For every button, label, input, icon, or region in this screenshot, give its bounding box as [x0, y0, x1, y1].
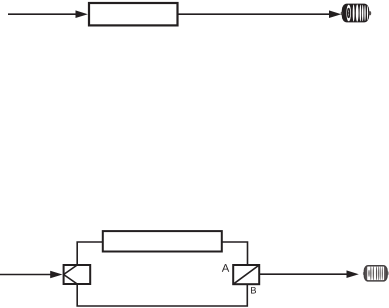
box: upper-arm device (delay) [103, 231, 222, 251]
wire: delay box to combiner [223, 242, 248, 265]
label B (port B) [251, 287, 256, 293]
arrowhead into splitter [50, 271, 62, 279]
arrowhead at top fiber coil [329, 10, 341, 18]
splitter internal branch lines [64, 265, 78, 284]
wire: bottom input lead [0, 274, 52, 276]
wire: top device to fiber coil [178, 13, 330, 15]
wire: lower arm (splitter to combiner port B) [77, 284, 247, 306]
arrowhead at bottom fiber coil [347, 270, 359, 278]
arrowhead into top device box [76, 10, 88, 18]
box: top device [89, 3, 178, 25]
box: splitter (1x2 coupler) [64, 265, 91, 284]
wire: combiner output to fiber coil [260, 273, 348, 275]
box: combiner cube [233, 265, 259, 284]
combiner diagonal [233, 265, 259, 284]
fiber coil (top) [341, 4, 372, 23]
fiber coil (bottom) [363, 266, 389, 282]
label A (port A) [222, 264, 229, 272]
wire: upper arm from splitter to delay box [77, 242, 102, 265]
wire: top input lead [8, 13, 77, 15]
